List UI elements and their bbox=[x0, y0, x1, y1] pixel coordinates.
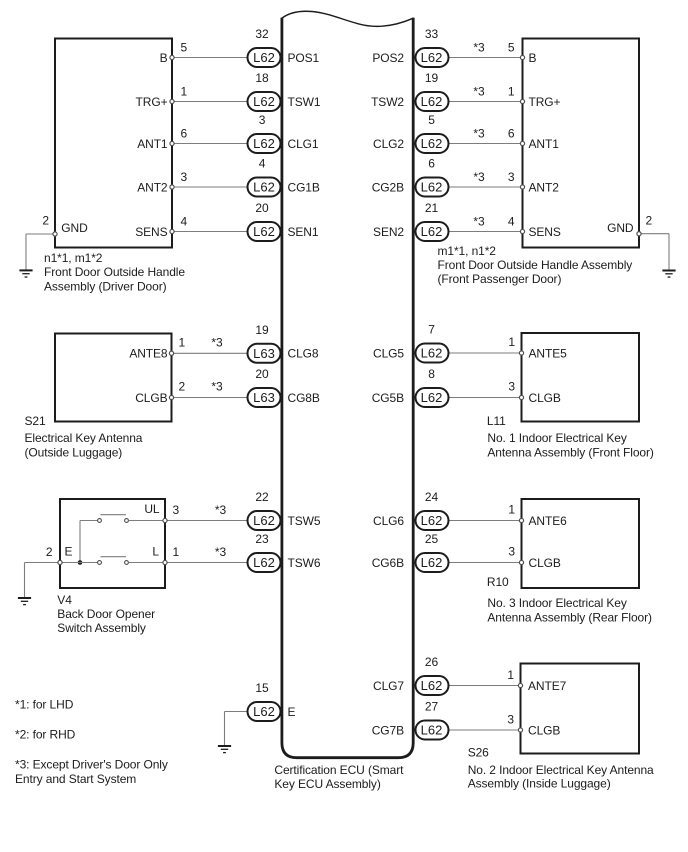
svg-text:L62: L62 bbox=[421, 723, 443, 738]
svg-text:21: 21 bbox=[425, 201, 439, 215]
pin 4 SENS driver door handle bbox=[135, 215, 187, 239]
pin 2 E V4 bbox=[46, 545, 62, 565]
svg-text:UL: UL bbox=[144, 502, 160, 516]
connector L62 CLG6 bbox=[416, 511, 449, 530]
svg-text:(Front Passenger Door): (Front Passenger Door) bbox=[438, 272, 562, 286]
svg-text:ANT1: ANT1 bbox=[137, 137, 168, 151]
svg-text:CLG8: CLG8 bbox=[288, 347, 319, 361]
component n1/m1 Front Door Outside Handle Assembly (Driver Door) box bbox=[55, 39, 172, 248]
svg-text:3: 3 bbox=[173, 503, 180, 517]
svg-text:E: E bbox=[288, 705, 296, 719]
svg-text:Assembly (Driver Door): Assembly (Driver Door) bbox=[44, 279, 167, 293]
connector L62 E bbox=[248, 702, 281, 721]
connector L62 CLG7 bbox=[416, 676, 449, 695]
wire SENS (driver door) to ECU bbox=[172, 231, 248, 233]
svg-text:TSW5: TSW5 bbox=[288, 514, 321, 528]
svg-text:1: 1 bbox=[508, 503, 515, 517]
svg-text:20: 20 bbox=[255, 201, 269, 215]
svg-text:1: 1 bbox=[508, 85, 515, 99]
svg-text:2: 2 bbox=[42, 214, 49, 228]
svg-text:SEN1: SEN1 bbox=[288, 225, 319, 239]
svg-text:L62: L62 bbox=[421, 50, 443, 65]
svg-text:4: 4 bbox=[508, 215, 515, 229]
svg-text:L62: L62 bbox=[421, 513, 443, 528]
svg-text:ANT2: ANT2 bbox=[137, 180, 168, 194]
svg-text:No. 1 Indoor Electrical Key: No. 1 Indoor Electrical Key bbox=[487, 431, 626, 445]
note *3: Except Driver&#39;s Door Only Entry and Start System bbox=[15, 758, 168, 787]
svg-text:ANT1: ANT1 bbox=[529, 137, 560, 151]
wire B (passenger door) to ECU bbox=[448, 57, 523, 59]
svg-text:CG5B: CG5B bbox=[372, 391, 404, 405]
svg-text:*3: *3 bbox=[473, 215, 485, 229]
svg-text:Front Door Outside Handle: Front Door Outside Handle bbox=[44, 265, 185, 279]
label: Certification ECU (Smart Key ECU Assembly) bbox=[274, 763, 404, 791]
svg-text:L62: L62 bbox=[421, 180, 443, 195]
wire TRG+ (driver door) to ECU bbox=[172, 101, 248, 103]
svg-text:6: 6 bbox=[508, 127, 515, 141]
wire ANTE5 L11 to ECU bbox=[448, 352, 522, 354]
pin 2 GND driver door handle bbox=[42, 214, 88, 237]
connector L62 TSW1 bbox=[248, 92, 281, 111]
svg-text:4: 4 bbox=[259, 157, 266, 171]
svg-text:Antenna Assembly (Front Floor): Antenna Assembly (Front Floor) bbox=[487, 445, 654, 459]
svg-text:CLG1: CLG1 bbox=[288, 137, 319, 151]
pin 6 ANT1 passenger door handle bbox=[508, 127, 559, 151]
svg-text:(Outside Luggage): (Outside Luggage) bbox=[25, 445, 123, 459]
pin 4 SENS passenger door handle bbox=[508, 215, 561, 239]
svg-text:*3: *3 bbox=[211, 335, 223, 349]
wire L (pin 1) V4 to ECU bbox=[165, 562, 248, 564]
svg-text:32: 32 bbox=[255, 27, 269, 41]
svg-text:No. 3 Indoor Electrical Key: No. 3 Indoor Electrical Key bbox=[487, 596, 626, 610]
svg-text:Switch Assembly: Switch Assembly bbox=[57, 621, 146, 635]
svg-text:3: 3 bbox=[181, 170, 188, 184]
svg-text:6: 6 bbox=[428, 157, 435, 171]
svg-text:CLGB: CLGB bbox=[528, 723, 560, 737]
pin 2 GND passenger door handle bbox=[607, 214, 652, 236]
wire UL (pin 3) V4 to ECU bbox=[165, 520, 248, 522]
connector L62 TSW2 bbox=[416, 92, 449, 111]
svg-text:GND: GND bbox=[61, 221, 88, 235]
pin 1 ANTE7 S26 bbox=[507, 668, 566, 693]
svg-text:Assembly (Inside Luggage): Assembly (Inside Luggage) bbox=[468, 776, 611, 790]
ground ECU E bbox=[218, 746, 231, 753]
svg-text:L63: L63 bbox=[253, 346, 275, 361]
svg-text:*3: *3 bbox=[215, 503, 227, 517]
svg-text:ANTE6: ANTE6 bbox=[529, 514, 568, 528]
svg-text:2: 2 bbox=[179, 380, 186, 394]
pin 3 CLGB R10 bbox=[508, 545, 560, 570]
svg-text:B: B bbox=[529, 51, 537, 65]
svg-text:5: 5 bbox=[181, 41, 188, 55]
pin 6 ANT1 driver door handle bbox=[137, 127, 187, 151]
svg-text:*3: *3 bbox=[473, 85, 485, 99]
svg-text:*2: for RHD: *2: for RHD bbox=[15, 728, 76, 742]
svg-text:CG2B: CG2B bbox=[372, 180, 404, 194]
svg-text:L62: L62 bbox=[421, 94, 443, 109]
svg-text:3: 3 bbox=[508, 545, 515, 559]
connector L63 CLG8 bbox=[248, 344, 281, 363]
pin 3 CLGB L11 bbox=[508, 380, 560, 405]
label UL / L / E inside V4 bbox=[65, 502, 160, 559]
svg-text:1: 1 bbox=[179, 335, 186, 349]
svg-text:22: 22 bbox=[255, 490, 269, 504]
svg-text:Entry and Start System: Entry and Start System bbox=[15, 772, 136, 786]
svg-text:POS1: POS1 bbox=[288, 51, 320, 65]
svg-text:CG7B: CG7B bbox=[372, 723, 404, 737]
pin 3 ANT2 passenger door handle bbox=[508, 170, 559, 194]
switch L contact (lower) bbox=[60, 557, 165, 565]
svg-text:15: 15 bbox=[255, 681, 269, 695]
pin 2 CLGB S21 bbox=[135, 380, 185, 405]
wire ANT2 (passenger door) to ECU bbox=[448, 186, 523, 188]
svg-text:TSW2: TSW2 bbox=[371, 95, 404, 109]
svg-text:1: 1 bbox=[181, 85, 188, 99]
svg-text:CLG5: CLG5 bbox=[373, 346, 404, 360]
svg-text:*3: *3 bbox=[473, 127, 485, 141]
pin 5 B driver door handle bbox=[160, 41, 188, 65]
svg-text:3: 3 bbox=[508, 170, 515, 184]
pin 1 ANTE8 S21 bbox=[129, 335, 185, 360]
label n1*1, m1*2 Front Door Outside Handle Assembly (Driver Door) bbox=[44, 251, 185, 293]
svg-text:ANTE7: ANTE7 bbox=[528, 679, 567, 693]
svg-text:1: 1 bbox=[173, 545, 180, 559]
wire ECU E pin 15 to ground bbox=[225, 712, 249, 746]
wire ANT2 (driver door) to ECU bbox=[172, 186, 248, 188]
svg-text:20: 20 bbox=[255, 367, 269, 381]
svg-text:2: 2 bbox=[646, 214, 653, 228]
pin 1 ANTE5 L11 bbox=[508, 335, 567, 360]
wire SENS (passenger door) to ECU bbox=[448, 231, 523, 233]
svg-text:*3: *3 bbox=[211, 380, 223, 394]
svg-text:ANTE5: ANTE5 bbox=[529, 346, 568, 360]
connector L62 SEN2 bbox=[416, 222, 449, 241]
component S21 Electrical Key Antenna (Outside Luggage) box bbox=[55, 334, 172, 422]
svg-text:m1*1, n1*2: m1*1, n1*2 bbox=[438, 244, 497, 258]
svg-text:TSW6: TSW6 bbox=[288, 556, 321, 570]
label S26 No. 2 Indoor Electrical Key Antenna Assembly (Inside Luggage) bbox=[468, 745, 654, 790]
svg-text:33: 33 bbox=[425, 27, 439, 41]
svg-text:No. 2 Indoor Electrical Key An: No. 2 Indoor Electrical Key Antenna bbox=[468, 763, 654, 777]
svg-text:L62: L62 bbox=[253, 50, 275, 65]
svg-text:CG6B: CG6B bbox=[372, 556, 404, 570]
wire E (pin 2) V4 to ground bbox=[25, 563, 61, 599]
svg-text:27: 27 bbox=[425, 700, 439, 714]
svg-text:*3: *3 bbox=[473, 41, 485, 55]
ECU torn-edge wavy top bbox=[282, 11, 413, 26]
connector L62 CLG1 bbox=[248, 134, 281, 153]
pin 3 UL V4 bbox=[163, 503, 180, 523]
svg-text:19: 19 bbox=[255, 323, 269, 337]
svg-text:L: L bbox=[152, 545, 159, 559]
pin 1 TRG+ driver door handle bbox=[136, 85, 188, 109]
wire CLGB S21 to ECU bbox=[172, 397, 249, 399]
svg-text:4: 4 bbox=[181, 215, 188, 229]
svg-text:Back Door Opener: Back Door Opener bbox=[57, 607, 155, 621]
wire GND passenger door handle to ground bbox=[639, 234, 669, 271]
svg-text:CLGB: CLGB bbox=[529, 391, 561, 405]
pin 3 ANT2 driver door handle bbox=[137, 170, 187, 194]
wire ANTE8 S21 to ECU bbox=[172, 352, 249, 354]
label V4 Back Door Opener Switch Assembly bbox=[57, 593, 155, 635]
svg-text:1: 1 bbox=[508, 335, 515, 349]
svg-text:L62: L62 bbox=[253, 94, 275, 109]
svg-text:L62: L62 bbox=[421, 390, 443, 405]
svg-text:5: 5 bbox=[428, 113, 435, 127]
svg-text:V4: V4 bbox=[57, 593, 72, 607]
svg-text:24: 24 bbox=[425, 490, 439, 504]
svg-text:3: 3 bbox=[507, 713, 514, 727]
svg-text:6: 6 bbox=[181, 127, 188, 141]
connector L62 SEN1 bbox=[248, 222, 281, 241]
wire V4 internal E to UL switch bbox=[80, 521, 98, 563]
svg-text:25: 25 bbox=[425, 532, 439, 546]
svg-text:19: 19 bbox=[425, 71, 439, 85]
wire B (driver door) to ECU bbox=[172, 57, 248, 59]
svg-text:SENS: SENS bbox=[529, 225, 561, 239]
svg-text:23: 23 bbox=[255, 532, 269, 546]
svg-text:*3: *3 bbox=[215, 545, 227, 559]
wire CLGB S26 to ECU bbox=[448, 729, 521, 731]
ECU U1 Certification ECU (Smart Key ECU Assembly) outline bbox=[282, 11, 413, 757]
svg-text:Antenna Assembly (Rear Floor): Antenna Assembly (Rear Floor) bbox=[487, 610, 652, 624]
svg-text:L62: L62 bbox=[253, 180, 275, 195]
wire ANTE6 R10 to ECU bbox=[448, 520, 522, 522]
connector L62 CG2B bbox=[416, 178, 449, 197]
svg-text:R10: R10 bbox=[487, 575, 509, 589]
connector L62 POS2 bbox=[416, 48, 449, 67]
svg-text:ANT2: ANT2 bbox=[529, 180, 560, 194]
svg-text:SENS: SENS bbox=[135, 225, 167, 239]
junction E node in V4 bbox=[78, 560, 83, 565]
connector L62 CG1B bbox=[248, 178, 281, 197]
component R10 No. 3 Indoor Electrical Key Antenna Assembly (Rear Floor) box bbox=[522, 499, 640, 588]
pin 1 L V4 bbox=[163, 545, 180, 565]
svg-text:L62: L62 bbox=[253, 224, 275, 239]
svg-text:TRG+: TRG+ bbox=[136, 95, 168, 109]
svg-text:L62: L62 bbox=[421, 346, 443, 361]
connector L62 TSW6 bbox=[248, 553, 281, 572]
svg-text:L63: L63 bbox=[253, 390, 275, 405]
wire CLGB R10 to ECU bbox=[448, 562, 522, 564]
svg-text:18: 18 bbox=[255, 71, 269, 85]
svg-text:CG1B: CG1B bbox=[288, 180, 320, 194]
svg-text:L62: L62 bbox=[253, 555, 275, 570]
connector L62 TSW5 bbox=[248, 511, 281, 530]
wire TRG+ (passenger door) to ECU bbox=[448, 101, 523, 103]
svg-text:Key ECU Assembly): Key ECU Assembly) bbox=[274, 777, 380, 791]
svg-text:CLG6: CLG6 bbox=[373, 514, 404, 528]
svg-text:3: 3 bbox=[259, 113, 266, 127]
svg-text:CLGB: CLGB bbox=[529, 556, 561, 570]
svg-text:Front Door Outside Handle Asse: Front Door Outside Handle Assembly bbox=[438, 258, 633, 272]
wire GND driver door handle to ground bbox=[26, 234, 55, 270]
svg-text:TRG+: TRG+ bbox=[529, 95, 561, 109]
switch UL contact (upper) bbox=[98, 515, 165, 523]
ground passenger door handle bbox=[662, 271, 675, 278]
svg-text:S21: S21 bbox=[25, 414, 46, 428]
svg-text:CLGB: CLGB bbox=[135, 391, 167, 405]
connector L62 CG7B bbox=[416, 721, 449, 740]
wire ANTE7 S26 to ECU bbox=[448, 685, 521, 687]
svg-text:Certification ECU (Smart: Certification ECU (Smart bbox=[274, 763, 404, 777]
connector L62 CLG2 bbox=[416, 134, 449, 153]
connector L62 POS1 bbox=[248, 48, 281, 67]
svg-text:S26: S26 bbox=[468, 745, 489, 759]
label S21 Electrical Key Antenna (Outside Luggage) bbox=[25, 414, 143, 459]
svg-text:GND: GND bbox=[607, 221, 634, 235]
label m1*1, n1*2 Front Door Outside Handle Assembly (Front Passenger Door) bbox=[438, 244, 633, 286]
component S26 No. 2 Indoor Electrical Key Antenna Assembly (Inside Luggage) box bbox=[521, 664, 640, 754]
svg-text:E: E bbox=[65, 545, 73, 559]
component V4 Back Door Opener Switch Assembly box bbox=[60, 499, 165, 588]
pin 1 ANTE6 R10 bbox=[508, 503, 567, 528]
svg-text:L62: L62 bbox=[421, 224, 443, 239]
connector L62 CG6B bbox=[416, 553, 449, 572]
pin 5 B passenger door handle bbox=[508, 41, 537, 65]
ground driver door handle bbox=[19, 270, 32, 277]
svg-text:ANTE8: ANTE8 bbox=[129, 347, 168, 361]
svg-text:n1*1, m1*2: n1*1, m1*2 bbox=[44, 251, 103, 265]
svg-text:1: 1 bbox=[507, 668, 514, 682]
svg-text:5: 5 bbox=[508, 41, 515, 55]
svg-text:*3: *3 bbox=[473, 170, 485, 184]
svg-text:3: 3 bbox=[508, 380, 515, 394]
connector L62 CG5B bbox=[416, 388, 449, 407]
svg-text:L62: L62 bbox=[421, 678, 443, 693]
svg-text:L62: L62 bbox=[421, 555, 443, 570]
svg-text:SEN2: SEN2 bbox=[373, 225, 404, 239]
component L11 No. 1 Indoor Electrical Key Antenna Assembly (Front Floor) box bbox=[522, 333, 640, 422]
svg-text:8: 8 bbox=[428, 367, 435, 381]
svg-text:TSW1: TSW1 bbox=[288, 95, 321, 109]
svg-text:L62: L62 bbox=[253, 136, 275, 151]
wire CLGB L11 to ECU bbox=[448, 397, 522, 399]
svg-text:L11: L11 bbox=[487, 414, 506, 428]
svg-text:L62: L62 bbox=[253, 704, 275, 719]
svg-text:26: 26 bbox=[425, 655, 439, 669]
svg-text:*3: Except Driver's Door Only: *3: Except Driver's Door Only bbox=[15, 758, 168, 772]
svg-text:2: 2 bbox=[46, 545, 53, 559]
svg-text:CLG7: CLG7 bbox=[373, 679, 404, 693]
svg-text:*1: for LHD: *1: for LHD bbox=[15, 698, 74, 712]
ground V4 switch bbox=[18, 598, 31, 605]
wire ANT1 (driver door) to ECU bbox=[172, 143, 248, 145]
label L11 No. 1 Indoor Electrical Key Antenna Assembly (Front Floor) bbox=[487, 414, 654, 459]
connector L63 CG8B bbox=[248, 388, 281, 407]
wire ANT1 (passenger door) to ECU bbox=[448, 143, 523, 145]
connector L62 CLG5 bbox=[416, 344, 449, 363]
pin 1 TRG+ passenger door handle bbox=[508, 85, 561, 109]
svg-text:POS2: POS2 bbox=[372, 51, 404, 65]
svg-text:L62: L62 bbox=[253, 513, 275, 528]
svg-text:CG8B: CG8B bbox=[288, 391, 320, 405]
component m1/n1 Front Door Outside Handle Assembly (Front Passenger Door) box bbox=[523, 39, 640, 248]
svg-text:Electrical Key Antenna: Electrical Key Antenna bbox=[25, 431, 143, 445]
svg-text:7: 7 bbox=[428, 323, 435, 337]
label R10 No. 3 Indoor Electrical Key Antenna Assembly (Rear Floor) bbox=[487, 575, 652, 624]
svg-text:B: B bbox=[160, 51, 168, 65]
pin 3 CLGB S26 bbox=[507, 713, 560, 738]
svg-text:L62: L62 bbox=[421, 136, 443, 151]
svg-text:CLG2: CLG2 bbox=[373, 137, 404, 151]
